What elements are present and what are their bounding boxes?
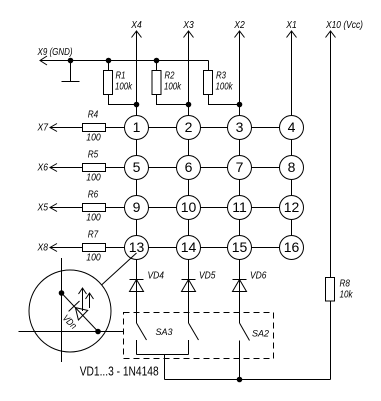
node VDn anode [59, 291, 64, 296]
svg-text:7: 7 [236, 159, 244, 175]
resistor R8 [326, 278, 354, 302]
wire SA3 common bracket [137, 354, 189, 356]
key 9 [125, 196, 149, 220]
resistor R3 [204, 61, 234, 95]
key 16 [280, 236, 304, 260]
wire X8 to R7 [50, 247, 82, 249]
svg-text:100: 100 [86, 173, 101, 184]
key 2 [177, 116, 201, 140]
wire col4 key4-key8 [291, 140, 293, 156]
wire sensor to key 13 [102, 253, 137, 285]
wire col3 key3-key7 [239, 140, 241, 156]
wire R4 to key 1 [106, 127, 125, 129]
svg-text:X3: X3 [182, 19, 193, 31]
wire row4 key15-key16 [252, 247, 280, 249]
wire col4 key12-key16 [291, 220, 293, 236]
wire col2 key2-key6 [188, 140, 190, 156]
svg-text:X9 (GND): X9 (GND) [37, 46, 73, 58]
key 15 [228, 236, 252, 260]
svg-text:X1: X1 [285, 19, 296, 31]
terminal X4 [130, 19, 141, 38]
svg-text:R8: R8 [340, 279, 351, 290]
wire R8 to bottom rail [330, 301, 332, 380]
wire R7 to key 13 [106, 247, 125, 249]
key 4 [280, 116, 304, 140]
svg-text:100k: 100k [216, 82, 234, 93]
wire row4 key14-key15 [201, 247, 228, 249]
terminal X2 [233, 19, 244, 38]
key 12 [280, 196, 304, 220]
diode VD4 [130, 271, 165, 292]
key 13 [125, 236, 149, 260]
wire X7 to R4 [50, 127, 82, 129]
svg-text:100: 100 [86, 213, 101, 224]
wire row3 key11-key12 [252, 207, 280, 209]
svg-text:100k: 100k [164, 82, 182, 93]
diode VD6 [233, 271, 267, 292]
wire column X4 to key 1 [136, 31, 138, 116]
resistor R2 [152, 61, 182, 95]
svg-text:100: 100 [86, 253, 101, 264]
svg-text:X2: X2 [233, 19, 244, 31]
svg-text:4: 4 [288, 119, 296, 135]
wire column X2 to key 3 [239, 31, 241, 116]
wire row2 key7-key8 [252, 167, 280, 169]
terminal X1 [285, 19, 296, 38]
svg-text:SA2: SA2 [252, 329, 270, 340]
svg-text:16: 16 [284, 239, 300, 255]
svg-text:10k: 10k [340, 290, 354, 301]
key 14 [177, 236, 201, 260]
svg-text:X5: X5 [37, 202, 48, 214]
resistor R4 [83, 110, 106, 144]
svg-text:10: 10 [181, 199, 197, 215]
svg-text:3: 3 [236, 119, 244, 135]
photodiode VDn triangle [75, 308, 87, 320]
key 8 [280, 156, 304, 180]
wire key15 down through VD6 to switch [239, 260, 241, 324]
terminal X9 (GND) [37, 46, 73, 65]
wire X6 to R5 [50, 167, 82, 169]
light arrow 1 [79, 288, 87, 311]
wire sensor horizontal [19, 331, 124, 333]
wire column X3 to key 2 [188, 31, 190, 116]
wire key14 down through VD5 to switch [188, 260, 190, 324]
node R3-X2 junction [237, 102, 242, 107]
svg-text:R5: R5 [88, 150, 99, 161]
wire col2 key6-key10 [188, 180, 190, 196]
svg-text:X10 (Vcc): X10 (Vcc) [325, 19, 363, 31]
resistor R6 [83, 190, 106, 224]
wire col3 key7-key11 [239, 180, 241, 196]
svg-text:2: 2 [185, 119, 193, 135]
wire bottom rail [165, 379, 331, 381]
svg-text:8: 8 [288, 159, 296, 175]
svg-text:R3: R3 [216, 71, 226, 82]
svg-text:R7: R7 [88, 230, 99, 241]
terminal X8 [37, 242, 57, 254]
svg-text:SA3: SA3 [156, 327, 174, 338]
svg-text:5: 5 [133, 159, 141, 175]
key 10 [177, 196, 201, 220]
node SA2-rail junction [237, 377, 242, 382]
photodiode VDn diagonal [62, 293, 99, 332]
key 11 [228, 196, 252, 220]
wire R3 bottom to column X2 [209, 95, 240, 105]
svg-text:12: 12 [284, 199, 300, 215]
wire SA3 bracket to bottom rail [164, 355, 166, 380]
wire GND rail [40, 60, 209, 62]
node R1 top junction [106, 58, 111, 63]
wire sensor vertical [61, 258, 63, 362]
wire row1 key3-key4 [252, 127, 280, 129]
wire X5 to R6 [50, 207, 82, 209]
wire row3 key10-key11 [201, 207, 228, 209]
light arrow 2 [86, 293, 94, 308]
svg-text:X8: X8 [37, 242, 48, 254]
node VDn cathode [96, 329, 101, 334]
key 7 [228, 156, 252, 180]
svg-text:9: 9 [133, 199, 141, 215]
svg-text:R6: R6 [88, 190, 99, 201]
svg-text:13: 13 [129, 239, 145, 255]
node R1-X4 junction [134, 102, 139, 107]
terminal X7 [37, 122, 57, 134]
wire R2 bottom to column X3 [157, 95, 189, 105]
wire key13 down through VD4 to switch [136, 260, 138, 324]
resistor R5 [83, 150, 106, 184]
switch SA3 contact a [137, 323, 147, 355]
svg-text:11: 11 [232, 199, 247, 215]
wire R1 bottom to column X4 [109, 95, 137, 105]
key 1 [125, 116, 149, 140]
wire row1 key2-key3 [201, 127, 228, 129]
dashed switch box [124, 313, 274, 359]
svg-text:VD1...3 - 1N4148: VD1...3 - 1N4148 [80, 365, 159, 379]
svg-text:R2: R2 [165, 71, 175, 82]
svg-text:VD6: VD6 [250, 271, 267, 282]
wire col4 key8-key12 [291, 180, 293, 196]
IR sensor circle VDn [29, 270, 111, 352]
svg-text:R4: R4 [88, 110, 99, 121]
wire column X1 to key 4 [291, 31, 293, 116]
wire col2 key10-key14 [188, 220, 190, 236]
terminal X10 (Vcc) [325, 19, 363, 38]
wire row1 key1-key2 [149, 127, 177, 129]
svg-text:1: 1 [133, 119, 141, 135]
svg-text:X4: X4 [130, 19, 141, 31]
wire col1 key9-key13 [136, 220, 138, 236]
node R2 top junction [154, 58, 159, 63]
svg-text:VD4: VD4 [148, 271, 165, 282]
node GND-stub junction [68, 58, 73, 63]
svg-text:100: 100 [86, 133, 101, 144]
switch SA2 [240, 323, 250, 380]
diode VD5 [182, 271, 216, 292]
wire row3 key9-key10 [149, 207, 177, 209]
resistor R7 [83, 230, 106, 264]
svg-text:X7: X7 [37, 122, 49, 134]
svg-text:14: 14 [181, 239, 197, 255]
terminal X6 [37, 162, 57, 174]
switch SA3 contact b [189, 323, 199, 355]
wire col1 key5-key9 [136, 180, 138, 196]
svg-text:VD5: VD5 [199, 271, 216, 282]
svg-text:6: 6 [185, 159, 193, 175]
svg-text:R1: R1 [116, 71, 126, 82]
svg-text:100k: 100k [115, 82, 133, 93]
node R2-X3 junction [186, 102, 191, 107]
wire row2 key5-key6 [149, 167, 177, 169]
key 3 [228, 116, 252, 140]
wire row4 key13-key14 [149, 247, 177, 249]
wire col3 key11-key15 [239, 220, 241, 236]
resistor R1 [104, 61, 133, 95]
wire R6 to key 9 [106, 207, 125, 209]
wire R5 to key 5 [106, 167, 125, 169]
svg-text:X6: X6 [37, 162, 48, 174]
key 5 [125, 156, 149, 180]
wire col1 key1-key5 [136, 140, 138, 156]
key 6 [177, 156, 201, 180]
terminal X5 [37, 202, 57, 214]
terminal X3 [182, 19, 193, 38]
ground [62, 61, 80, 82]
wire row2 key6-key7 [201, 167, 228, 169]
wire Vcc column to R8 [330, 31, 332, 277]
svg-text:15: 15 [232, 239, 248, 255]
photodiode VDn bar [69, 301, 80, 311]
